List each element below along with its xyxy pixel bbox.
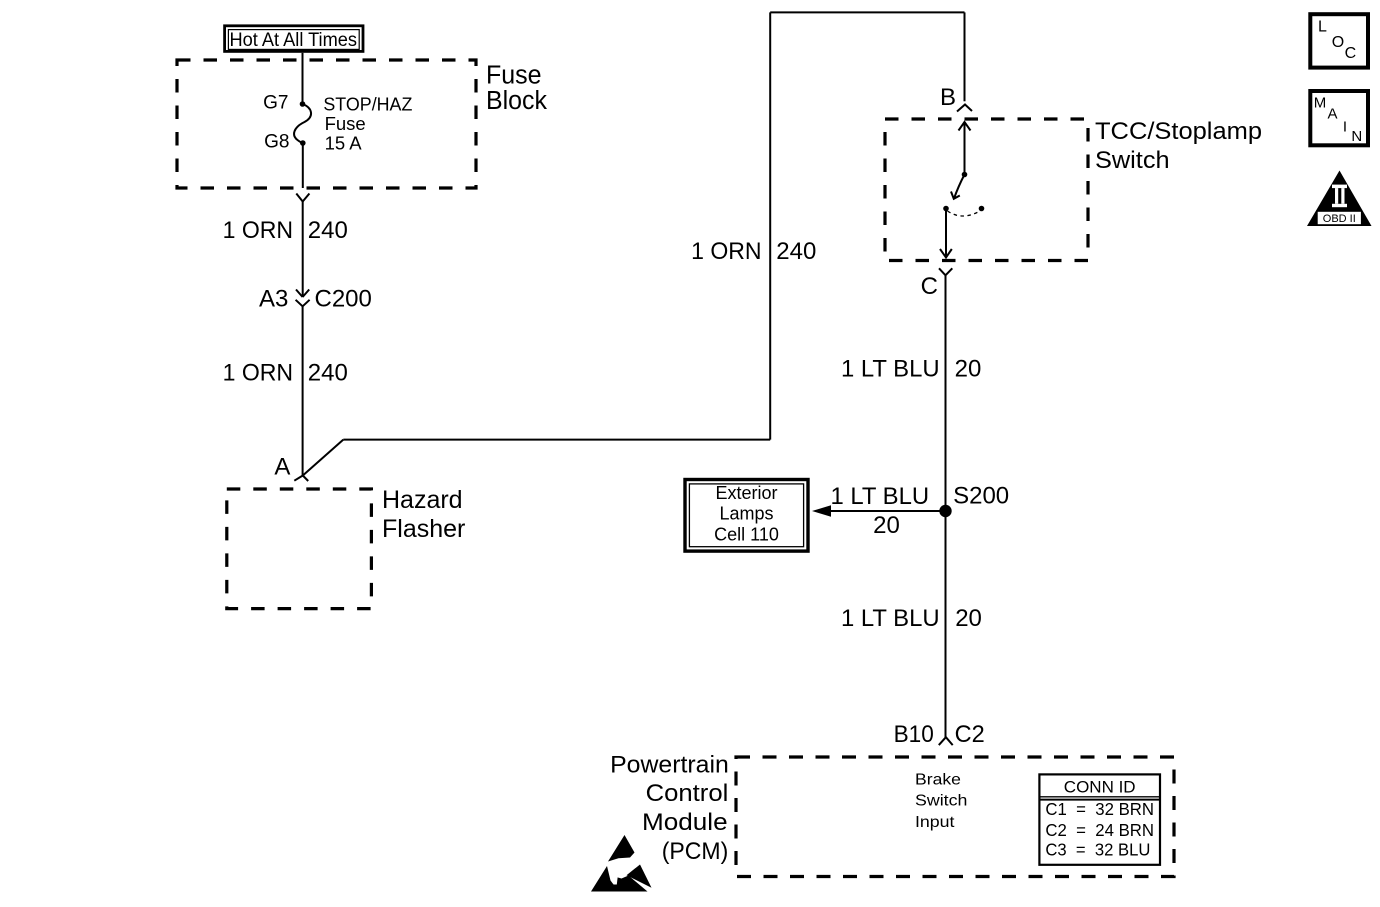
splice S200 dot bbox=[939, 505, 951, 517]
svg-text:C: C bbox=[921, 273, 938, 300]
svg-text:C200: C200 bbox=[315, 286, 372, 313]
svg-text:20: 20 bbox=[873, 512, 900, 539]
svg-text:Fuse: Fuse bbox=[486, 61, 542, 89]
label box "Hot At All Times" bbox=[225, 26, 363, 52]
label Fuse Block bbox=[486, 61, 547, 115]
label TCC/Stoplamp Switch bbox=[1095, 118, 1262, 174]
svg-text:240: 240 bbox=[776, 238, 816, 265]
svg-text:Input: Input bbox=[915, 814, 955, 831]
svg-text:20: 20 bbox=[955, 605, 982, 632]
connector chevron below fuse block bbox=[296, 194, 309, 202]
label Powertrain Control Module (PCM) bbox=[610, 751, 729, 865]
svg-text:1 ORN: 1 ORN bbox=[223, 360, 294, 387]
wire: feed from Hot At All Times into fuse block bbox=[302, 53, 304, 104]
svg-text:C3 = 32 BLU: C3 = 32 BLU bbox=[1045, 840, 1150, 860]
ESD sensitive device symbol bbox=[591, 835, 652, 892]
svg-text:C2 = 24 BRN: C2 = 24 BRN bbox=[1045, 820, 1154, 840]
exterior lamps cell 110 reference box bbox=[685, 480, 808, 552]
switch pivot dot bbox=[943, 206, 949, 212]
svg-text:15 A: 15 A bbox=[325, 133, 363, 154]
svg-text:I: I bbox=[1343, 119, 1347, 136]
svg-text:1 LT BLU: 1 LT BLU bbox=[841, 356, 940, 383]
switch upper terminal wire with up arrow bbox=[959, 122, 971, 175]
label STOP/HAZ Fuse 15 A bbox=[323, 94, 412, 154]
wire: top horizontal run bbox=[770, 11, 964, 13]
label 1 LT BLU 20 (upper) bbox=[841, 356, 981, 383]
svg-text:240: 240 bbox=[308, 217, 348, 244]
LOC legend box bbox=[1310, 14, 1368, 67]
svg-text:CONN ID: CONN ID bbox=[1064, 778, 1136, 797]
wire: left riser up bbox=[769, 12, 771, 439]
svg-text:C1 = 32 BRN: C1 = 32 BRN bbox=[1045, 799, 1154, 819]
wire: branch from S200 to exterior lamps bbox=[830, 510, 946, 512]
svg-text:Hot At All Times: Hot At All Times bbox=[230, 30, 358, 51]
switch alternate contact dot bbox=[979, 206, 985, 212]
svg-text:Module: Module bbox=[642, 809, 728, 836]
svg-text:Control: Control bbox=[646, 780, 729, 807]
MAIN legend box bbox=[1310, 91, 1368, 145]
svg-text:STOP/HAZ: STOP/HAZ bbox=[323, 94, 412, 115]
OBD II triangle icon bbox=[1307, 171, 1372, 227]
svg-text:Lamps: Lamps bbox=[719, 504, 773, 524]
svg-text:B10: B10 bbox=[894, 721, 934, 748]
svg-text:N: N bbox=[1351, 128, 1362, 145]
fuse block dashed box bbox=[177, 60, 476, 188]
svg-text:OBD II: OBD II bbox=[1323, 213, 1356, 225]
svg-text:20: 20 bbox=[955, 356, 982, 383]
svg-text:B: B bbox=[940, 84, 956, 111]
fuse STOP/HAZ 15A squiggle element bbox=[294, 104, 311, 144]
svg-text:1 LT BLU: 1 LT BLU bbox=[841, 605, 940, 632]
svg-text:C2: C2 bbox=[955, 721, 985, 748]
svg-text:M: M bbox=[1314, 95, 1327, 112]
svg-text:TCC/Stoplamp: TCC/Stoplamp bbox=[1095, 118, 1262, 145]
pin B10 connector chevron into PCM bbox=[939, 737, 953, 745]
CONN ID table bbox=[1039, 774, 1160, 864]
svg-text:Brake: Brake bbox=[915, 772, 961, 789]
svg-text:Powertrain: Powertrain bbox=[610, 751, 729, 778]
svg-text:Fuse: Fuse bbox=[325, 113, 366, 134]
wire: drop to switch terminal B bbox=[964, 12, 966, 101]
svg-text:G8: G8 bbox=[264, 132, 289, 153]
wire: fuse block to connector C200 bbox=[302, 202, 304, 298]
hazard flasher dashed box bbox=[227, 489, 372, 609]
label Brake Switch Input bbox=[915, 772, 967, 831]
arrowhead to exterior lamps bbox=[812, 505, 831, 516]
node B connector chevron bbox=[957, 105, 972, 112]
svg-text:Flasher: Flasher bbox=[382, 515, 465, 543]
switch travel dashed arc bbox=[948, 211, 981, 216]
label Hazard Flasher bbox=[382, 486, 465, 543]
svg-text:L: L bbox=[1318, 19, 1327, 36]
svg-text:A: A bbox=[1328, 106, 1338, 123]
switch blade with arrowhead bbox=[951, 175, 965, 199]
powertrain control module dashed box bbox=[736, 757, 1174, 877]
node A connector chevron at hazard flasher bbox=[294, 476, 308, 482]
wire: horizontal run to right riser bbox=[343, 439, 770, 441]
svg-text:A3: A3 bbox=[259, 286, 288, 313]
svg-text:A: A bbox=[274, 453, 290, 480]
svg-text:S200: S200 bbox=[953, 482, 1009, 509]
svg-text:240: 240 bbox=[308, 360, 348, 387]
wire: S200 down to PCM pin B10 bbox=[945, 517, 947, 737]
svg-text:1 LT BLU: 1 LT BLU bbox=[831, 483, 930, 510]
svg-text:1 ORN: 1 ORN bbox=[223, 217, 294, 244]
svg-text:Switch: Switch bbox=[915, 792, 967, 809]
node C connector chevron bbox=[939, 268, 952, 275]
svg-text:Block: Block bbox=[486, 87, 547, 115]
wire: C down to splice S200 bbox=[945, 275, 947, 511]
svg-text:Switch: Switch bbox=[1095, 147, 1170, 174]
svg-text:O: O bbox=[1332, 34, 1344, 51]
svg-text:(PCM): (PCM) bbox=[662, 838, 729, 865]
svg-text:Hazard: Hazard bbox=[382, 486, 463, 514]
label 1 ORN 240 (lower) bbox=[223, 360, 348, 387]
wire: fuse to fuse block edge bbox=[302, 143, 304, 188]
label 1 ORN 240 (riser) bbox=[691, 238, 816, 265]
svg-text:G7: G7 bbox=[263, 93, 288, 114]
label 1 LT BLU 20 (lower) bbox=[841, 605, 982, 632]
wire: diagonal from node A bbox=[303, 440, 344, 476]
svg-text:Exterior: Exterior bbox=[715, 483, 777, 503]
wire: C200 to node A bbox=[302, 306, 304, 475]
node G7 terminal dot bbox=[300, 101, 306, 107]
node G8 terminal dot bbox=[300, 140, 306, 146]
svg-text:1 ORN: 1 ORN bbox=[691, 238, 762, 265]
connector C200 in-line symbol (male arrow + female chevron) bbox=[296, 290, 310, 307]
svg-text:C: C bbox=[1345, 45, 1357, 62]
label 1 ORN 240 (upper) bbox=[223, 217, 348, 244]
switch lower wire with down arrow bbox=[940, 209, 952, 258]
TCC/Stoplamp switch dashed box bbox=[885, 119, 1088, 261]
switch upper contact dot bbox=[962, 172, 968, 178]
svg-text:Cell 110: Cell 110 bbox=[714, 524, 779, 544]
